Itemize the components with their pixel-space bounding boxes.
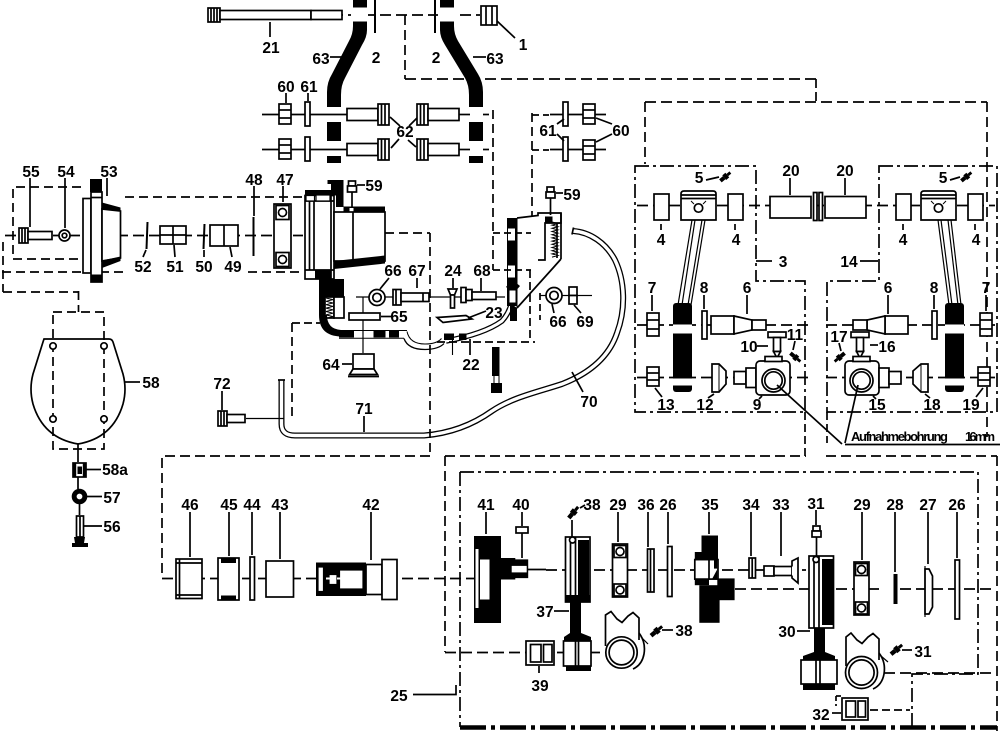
- leader 37: [554, 610, 569, 612]
- svg-text:6: 6: [743, 280, 752, 297]
- axis 72 to pipe: [246, 418, 284, 420]
- nut 7 right: [980, 313, 992, 336]
- washer 27: [925, 569, 933, 614]
- svg-text:40: 40: [512, 497, 529, 514]
- bolt 68: [461, 288, 496, 303]
- leader 46: [189, 512, 191, 557]
- leader 30: [797, 630, 810, 632]
- construction: vertical x530 down: [529, 270, 531, 342]
- construction: vertical x987 right outer: [986, 102, 988, 437]
- damper 20 right: [825, 197, 866, 219]
- 41 stub slot: [512, 566, 527, 573]
- bearing 46: [176, 559, 202, 599]
- svg-text:69: 69: [576, 314, 594, 331]
- nut 60 row2: [279, 139, 291, 159]
- svg-text:68: 68: [473, 263, 491, 280]
- leader 3: [756, 260, 772, 262]
- svg-text:30: 30: [778, 624, 795, 641]
- spacer 49: [210, 225, 238, 246]
- dashes near 32: [836, 695, 841, 697]
- leader 21: [269, 22, 271, 37]
- black L bracket: [492, 347, 500, 376]
- washer 2 right: [434, 0, 436, 33]
- lower gasket line y272: [2, 271, 125, 273]
- conrod 30 upper body: [809, 556, 834, 628]
- leader 36: [647, 512, 649, 547]
- svg-text:32: 32: [812, 707, 829, 724]
- foot thread zigzag: [326, 298, 333, 318]
- leader 49: [230, 247, 232, 257]
- washer 4 R1: [896, 194, 911, 220]
- pipe 71 end cap: [278, 379, 285, 381]
- lower axis stub y589: [735, 588, 810, 590]
- svg-text:49: 49: [224, 259, 242, 276]
- plate 36: [648, 549, 655, 592]
- bolt 62 r2 right: [417, 139, 459, 160]
- leader 8 left: [703, 295, 705, 309]
- svg-text:45: 45: [220, 497, 238, 514]
- pipe 22 black elbow top: [506, 280, 520, 294]
- leader 31 top: [815, 510, 817, 525]
- screw 59 left: [348, 181, 357, 192]
- svg-text:23: 23: [485, 305, 503, 322]
- leaders 4 right box: [902, 224, 904, 230]
- construction: y342 horizontal: [437, 341, 535, 343]
- leader 10: [757, 345, 768, 347]
- leaders 62: [390, 117, 400, 126]
- svg-text:31: 31: [914, 644, 932, 661]
- cone 12: [712, 364, 726, 392]
- outer box 25 right: [996, 456, 998, 731]
- construction: y270 bracket right: [493, 269, 531, 271]
- pipe 70 end cap: [572, 228, 574, 235]
- svg-text:64: 64: [322, 357, 340, 374]
- leader 9: [759, 396, 762, 399]
- leader 56: [84, 525, 102, 527]
- svg-text:38: 38: [583, 497, 601, 514]
- leader 58: [124, 381, 140, 383]
- T-screw 16: [851, 332, 869, 358]
- circlip holder left: [606, 612, 640, 647]
- svg-text:4: 4: [899, 232, 908, 249]
- svg-text:25: 25: [390, 688, 408, 705]
- svg-text:51: 51: [166, 259, 184, 276]
- dashed gasket rect 58: [53, 312, 104, 449]
- leader 7 left: [651, 295, 653, 311]
- svg-text:54: 54: [57, 164, 75, 181]
- leader 45: [228, 512, 230, 556]
- shim 26 right: [955, 560, 960, 619]
- bearing 29 left: [613, 544, 628, 597]
- svg-text:50: 50: [195, 259, 212, 276]
- bolt 62 r2 left: [347, 139, 389, 160]
- dashed box around 55/54: [13, 187, 81, 259]
- leader 59 left: [357, 184, 365, 186]
- leader 53: [106, 178, 108, 196]
- crank pin black left: [673, 303, 692, 392]
- bottom thick dashed border: [460, 725, 997, 730]
- svg-text:46: 46: [181, 497, 199, 514]
- svg-text:65: 65: [390, 309, 408, 326]
- screw 59 right: [546, 187, 555, 198]
- svg-text:5: 5: [695, 170, 704, 187]
- leaders 61b 60b: [557, 119, 564, 124]
- leader 66 left: [380, 278, 389, 289]
- snap ring 52: [147, 222, 148, 249]
- svg-text:55: 55: [22, 164, 40, 181]
- svg-text:31: 31: [807, 496, 825, 513]
- stem line below cover: [77, 444, 79, 462]
- grommet 57: [75, 492, 85, 502]
- bolt 62 r1 left: [347, 104, 389, 125]
- svg-text:4: 4: [657, 232, 666, 249]
- T-screw 10: [768, 332, 786, 358]
- svg-text:10: 10: [740, 339, 757, 356]
- stud 6 left: [711, 316, 766, 334]
- leader 72: [221, 391, 223, 410]
- funnel 64: [348, 354, 379, 377]
- svg-text:6: 6: [884, 280, 893, 297]
- axis y296 right: [540, 295, 546, 297]
- cylinder bottom black band: [334, 256, 385, 270]
- cover 58 screw holes: [50, 343, 56, 349]
- leader 60 left: [285, 93, 287, 103]
- leader 1: [497, 21, 515, 38]
- construction: vertical x816: [815, 79, 817, 102]
- bolt row right stubs: [458, 114, 470, 116]
- svg-text:43: 43: [271, 497, 289, 514]
- leader 25: [413, 685, 456, 695]
- outer box 25 top: [445, 455, 806, 457]
- flange 53 cone bottom band: [102, 257, 121, 269]
- spacer 28: [894, 574, 898, 604]
- circlip holder right: [846, 633, 879, 666]
- svg-text:7: 7: [648, 280, 657, 297]
- leader 26 left: [667, 512, 669, 544]
- leader 52: [143, 250, 146, 257]
- dashed bracket x532: [531, 113, 533, 233]
- flange 53 gasket plate: [83, 199, 91, 274]
- svg-text:56: 56: [103, 519, 121, 536]
- bolt 21 shank: [220, 11, 311, 20]
- washer 2 left: [374, 0, 376, 33]
- leader 70: [572, 372, 583, 392]
- svg-text:58: 58: [142, 375, 160, 392]
- flange 53 cone body: [102, 209, 121, 261]
- cone 18: [913, 364, 928, 392]
- svg-text:72: 72: [213, 376, 230, 393]
- mid axis y325: [637, 324, 808, 326]
- pipe 71 long fuel hose: [282, 231, 624, 436]
- bolt row 2 axis: [262, 149, 348, 151]
- lug + screw 31 right: [881, 656, 888, 662]
- piston 5 left: [681, 191, 716, 220]
- svg-text:71: 71: [355, 401, 373, 418]
- construction: y323 stub: [292, 322, 320, 324]
- construction: horizontal y79: [405, 78, 816, 80]
- leader 27: [927, 512, 929, 564]
- 37 shank: [564, 602, 591, 641]
- spacer 51: [160, 226, 186, 244]
- bolt 21 threaded end: [311, 11, 342, 20]
- shim 26 left: [668, 547, 673, 597]
- nut 19: [978, 367, 990, 386]
- screw 24: [448, 289, 457, 308]
- leader 28: [894, 512, 896, 572]
- ring 66 left: [369, 290, 385, 306]
- bolt 62 r1 right: [417, 104, 459, 125]
- screw 56: [77, 516, 84, 537]
- axis line screw 24 down: [452, 340, 454, 355]
- construction: vertical x292: [291, 323, 293, 416]
- svg-text:57: 57: [103, 490, 120, 507]
- bearing 29 right: [854, 562, 869, 615]
- nut 1: [481, 6, 497, 25]
- svg-text:5: 5: [939, 170, 948, 187]
- leader 5 left: [706, 177, 719, 180]
- pipe 22 impulse: [446, 292, 514, 341]
- flywheel 41 black: [474, 536, 528, 623]
- spacer 43: [266, 561, 294, 597]
- stud 6 right: [853, 316, 908, 334]
- bearing 47: [274, 204, 291, 268]
- screw 55: [19, 228, 52, 243]
- leader 63 left: [330, 56, 345, 58]
- svg-text:67: 67: [408, 263, 425, 280]
- washer 4 L1: [654, 194, 669, 220]
- svg-text:29: 29: [853, 497, 871, 514]
- leader 24: [452, 278, 454, 288]
- svg-text:41: 41: [477, 497, 495, 514]
- leader 43: [279, 512, 281, 559]
- leader 35: [708, 512, 710, 534]
- svg-text:3: 3: [779, 254, 788, 271]
- taper outline: [517, 259, 561, 308]
- cylinder top black band: [344, 207, 386, 213]
- screw 17 icon: [833, 351, 847, 364]
- washer 8 left: [702, 311, 707, 339]
- ring 66 right: [546, 288, 562, 304]
- svg-text:24: 24: [444, 263, 462, 280]
- svg-text:59: 59: [365, 178, 383, 195]
- leader to Aufnahmebohrung from 9: [777, 385, 842, 444]
- leader 6 left: [746, 295, 748, 314]
- leader 16: [870, 344, 878, 346]
- sprocket drum 42: [316, 563, 366, 597]
- flange 53 bottom bump: [92, 275, 103, 283]
- leader 65: [381, 316, 391, 318]
- conrod right: [938, 220, 961, 305]
- svg-text:61: 61: [539, 123, 557, 140]
- leader 51: [174, 245, 175, 257]
- top edge and boss: [517, 213, 561, 260]
- vertical dashed connector x493: [492, 110, 494, 270]
- shim 44: [250, 557, 255, 600]
- svg-text:20: 20: [782, 163, 799, 180]
- washer 34: [749, 558, 756, 578]
- svg-text:21: 21: [262, 40, 280, 57]
- plate 65: [349, 313, 380, 320]
- plug 58a: [73, 463, 86, 477]
- crank web 35: [695, 536, 735, 623]
- construction: vertical x645: [644, 102, 646, 164]
- svg-text:28: 28: [886, 497, 904, 514]
- handle leg 63 right: [440, 0, 483, 163]
- lower axis y652: [445, 652, 604, 654]
- shim 48: [253, 217, 255, 256]
- washer 8 right: [932, 311, 937, 339]
- leader 7 right: [985, 295, 987, 311]
- left flange of crankcase: [305, 196, 334, 280]
- leaders 4 left box: [660, 224, 662, 230]
- svg-text:62: 62: [396, 124, 413, 141]
- 30 big end: [801, 660, 837, 684]
- svg-text:4: 4: [732, 232, 741, 249]
- big washer circle right: [846, 657, 878, 689]
- 37 big end: [564, 641, 592, 666]
- svg-text:22: 22: [462, 357, 479, 374]
- foot elbow: [319, 315, 352, 337]
- svg-text:58a: 58a: [102, 462, 128, 479]
- leader 38 right: [662, 629, 673, 631]
- svg-text:63: 63: [486, 51, 504, 68]
- svg-text:36: 36: [637, 497, 655, 514]
- bolt 72: [218, 411, 245, 426]
- leg 63 left windows: [326, 8, 369, 157]
- svg-text:2: 2: [372, 50, 381, 67]
- bushing 32: [842, 698, 868, 720]
- nut 60 row1: [279, 104, 291, 124]
- bottom foot black: [510, 303, 517, 321]
- leader 59 right: [556, 192, 563, 194]
- big washer circle left: [606, 637, 637, 668]
- leader 54: [64, 178, 66, 228]
- axis y578 left: [162, 578, 474, 580]
- verticals from boxes 3/14 down: [804, 412, 806, 456]
- svg-text:16: 16: [878, 339, 896, 356]
- svg-text:11: 11: [787, 327, 804, 344]
- 30 shank: [803, 628, 835, 660]
- leader 6 right: [887, 295, 889, 314]
- axis y570: [546, 569, 806, 571]
- leader 57: [87, 496, 102, 498]
- dashed bracket near 66r: [539, 293, 541, 320]
- crankcase foot: [319, 279, 344, 297]
- leader 48: [253, 186, 255, 216]
- leader 33: [780, 512, 782, 556]
- leader 29 left: [617, 512, 619, 542]
- leader 41: [485, 512, 487, 534]
- left partial dashed box: [162, 456, 430, 578]
- svg-text:9: 9: [753, 397, 762, 414]
- washer 69: [569, 287, 577, 304]
- svg-text:13: 13: [657, 397, 675, 414]
- svg-text:66: 66: [549, 314, 567, 331]
- svg-text:60: 60: [277, 79, 294, 96]
- screw 5 icon left: [718, 170, 732, 183]
- leader 11: [793, 341, 795, 350]
- construction: y233 segment: [385, 232, 430, 234]
- svg-text:52: 52: [134, 259, 151, 276]
- svg-text:60: 60: [612, 123, 629, 140]
- nut 60b row1: [583, 104, 595, 124]
- lower axis right y673: [884, 672, 995, 674]
- leader 47: [282, 186, 284, 202]
- outer box 25 left: [444, 456, 446, 652]
- bolt 33: [764, 558, 798, 583]
- construction right of legs rows: [483, 114, 493, 116]
- svg-text:70: 70: [580, 394, 597, 411]
- leader 13: [655, 388, 662, 397]
- Aufnahmebohrung underline: [845, 444, 1000, 446]
- svg-text:26: 26: [659, 497, 677, 514]
- handle leg 63 left: [327, 0, 367, 163]
- svg-text:35: 35: [701, 497, 719, 514]
- construction: horizontal y102: [645, 101, 987, 103]
- leaders 20: [789, 178, 791, 195]
- svg-text:12: 12: [696, 397, 713, 414]
- conrod 37 upper body: [566, 537, 591, 602]
- svg-text:1: 1: [519, 37, 528, 54]
- svg-text:48: 48: [245, 172, 263, 189]
- svg-text:29: 29: [609, 497, 627, 514]
- washer 54: [59, 230, 70, 241]
- screw 5 icon right: [959, 170, 973, 183]
- leader to Aufnahmebohrung from 15: [845, 385, 858, 443]
- leader 29 right: [861, 512, 863, 560]
- washer 4 L2: [728, 194, 743, 220]
- leader 15: [873, 396, 876, 399]
- stem 66-64: [362, 298, 364, 354]
- right pair rows axis: [550, 114, 606, 116]
- leader 50: [203, 250, 205, 257]
- screw 11 icon: [788, 351, 802, 364]
- leader 71: [363, 416, 365, 432]
- top axis y205: [637, 205, 995, 207]
- flange 53 cone top band: [102, 203, 121, 213]
- leader 18: [925, 394, 930, 398]
- leader 34: [750, 512, 752, 556]
- svg-text:16 mm: 16 mm: [965, 429, 995, 444]
- svg-text:61: 61: [300, 79, 318, 96]
- flange 53 body: [91, 192, 102, 282]
- nut 7 left: [647, 313, 659, 336]
- nut 60b row2: [583, 140, 595, 160]
- leader 23: [468, 311, 486, 318]
- leader 61 left: [307, 93, 309, 101]
- svg-text:17: 17: [830, 329, 847, 346]
- washer 61b row2: [563, 137, 568, 161]
- nut 13: [647, 367, 659, 386]
- leader 8 right: [933, 295, 935, 309]
- spring zigzag: [552, 222, 558, 257]
- piston 5 right: [921, 191, 956, 220]
- svg-text:Aufnahmebohrung: Aufnahmebohrung: [851, 429, 948, 444]
- leader 55: [29, 178, 31, 227]
- svg-text:14: 14: [840, 254, 858, 271]
- cylinder body: [334, 212, 385, 261]
- zigzag construction to 58: [2, 242, 4, 292]
- left black bar: [507, 218, 517, 306]
- svg-text:26: 26: [948, 497, 966, 514]
- svg-text:33: 33: [772, 497, 790, 514]
- leader 19: [976, 388, 983, 397]
- cover 58 outline: [31, 339, 125, 444]
- washer 4 R2: [968, 194, 983, 220]
- svg-text:38: 38: [675, 623, 693, 640]
- bolt row 1 axis: [262, 114, 348, 116]
- damper 20 left: [770, 197, 811, 219]
